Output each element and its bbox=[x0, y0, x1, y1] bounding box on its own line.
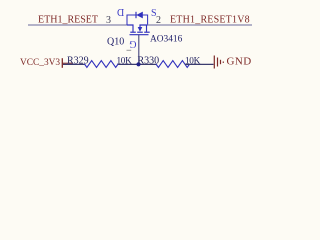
power port VCC_3V3 bar bbox=[61, 58, 63, 68]
ground GND bar 4 bbox=[222, 62, 224, 63]
wire R330 to GND bbox=[185, 63, 214, 65]
pin 1 marker (small dash above R329 value) bbox=[127, 49, 132, 51]
wire net ETH1_RESET1V8 (right horizontal) bbox=[148, 24, 253, 26]
transistor Q10 drain internal lead bbox=[127, 25, 133, 32]
ground GND bar 2 bbox=[217, 58, 219, 67]
junction node gate/R329/R330 bbox=[136, 62, 140, 66]
svg-text:ETH1_RESET1V8: ETH1_RESET1V8 bbox=[170, 15, 250, 26]
resistor R329 bbox=[85, 61, 119, 68]
svg-text:VCC_3V3: VCC_3V3 bbox=[20, 58, 60, 68]
transistor Q10 channel segment middle bbox=[137, 31, 143, 33]
transistor Q10 bulk-source internal lead bbox=[140, 25, 148, 27]
transistor Q10 bulk arrow bbox=[138, 27, 143, 32]
transistor Q10 body-diode triangle bbox=[136, 12, 143, 19]
resistor R330 bbox=[156, 61, 190, 68]
transistor Q10 channel segment right bbox=[144, 31, 150, 33]
transistor Q10 channel segment left bbox=[130, 31, 136, 33]
svg-text:G: G bbox=[129, 38, 136, 49]
transistor Q10 body-diode loop bbox=[127, 15, 148, 25]
ground GND bar 3 bbox=[220, 60, 222, 64]
transistor Q10 gate plate bbox=[130, 34, 149, 36]
wire gate to junction (vertical) bbox=[138, 35, 140, 65]
svg-text:AO3416: AO3416 bbox=[150, 35, 183, 45]
wire net ETH1_RESET (left horizontal) bbox=[28, 24, 127, 26]
svg-text:GND: GND bbox=[227, 56, 252, 68]
svg-text:3: 3 bbox=[106, 15, 111, 26]
wire VCC_3V3 to R329 bbox=[63, 63, 85, 65]
svg-text:Q10: Q10 bbox=[107, 37, 124, 48]
transistor Q10 source internal lead bbox=[146, 25, 148, 32]
svg-text:ETH1_RESET: ETH1_RESET bbox=[38, 15, 98, 26]
wire R329 to R330 bbox=[118, 63, 156, 65]
power port VCC_3V3 stub bbox=[63, 62, 74, 64]
svg-text:D: D bbox=[117, 6, 124, 17]
ground GND bar 1 bbox=[213, 56, 215, 69]
svg-text:2: 2 bbox=[156, 15, 161, 26]
transistor Q10 body-diode cathode bar bbox=[135, 12, 137, 18]
